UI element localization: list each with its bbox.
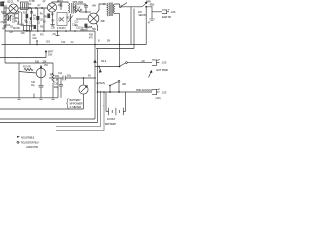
wire T3 secondary to C13: [76, 3, 86, 5]
node dot: [37, 30, 39, 32]
resistor R19: [52, 73, 54, 82]
AVC wire: [49, 77, 63, 79]
svg-text:J 2S: J 2S: [171, 10, 176, 14]
ground foot: [18, 98, 21, 100]
svg-text:S2-4: S2-4: [101, 59, 107, 63]
svg-text:L9R: L9R: [122, 84, 126, 86]
antenna L1 ferrite rod: [1, 2, 6, 24]
wire jack sleeve down: [151, 12, 153, 19]
wire branch: [45, 52, 47, 58]
rail H3: [2, 44, 147, 46]
wire down to pot: [18, 63, 20, 98]
switch blade S2-4: [120, 63, 126, 67]
resistor R8: [60, 2, 63, 10]
resistor column x14.8: [14, 14, 16, 18]
wire to EXT PWR jack: [127, 62, 152, 64]
wire pot bottom: [40, 80, 42, 86]
ground col2: [30, 25, 34, 26]
jack J1 EAR SP: [162, 10, 169, 14]
main rail H2: [5, 30, 95, 32]
wire: [40, 87, 42, 98]
transformer T4 output: [107, 3, 115, 17]
node dot: [29, 30, 31, 32]
svg-text:C12 10μ: C12 10μ: [76, 28, 85, 30]
svg-text:J 2S: J 2S: [162, 91, 167, 95]
legend adjustable: [17, 136, 20, 138]
capacitor C6 block: [47, 14, 50, 19]
node dot: [145, 6, 147, 8]
svg-text:R8 T3: R8 T3: [57, 1, 63, 3]
svg-text:R17 470: R17 470: [23, 67, 32, 69]
rail bottom 3: [0, 122, 98, 124]
rail H4: [0, 57, 46, 59]
svg-text:PWR JACK(S2-6): PWR JACK(S2-6): [136, 89, 153, 92]
shield box T2 on rail: [24, 26, 30, 31]
ground: [149, 19, 155, 20]
node dot: [103, 3, 105, 5]
battery B1: [106, 108, 126, 115]
resistor R3 column: [21, 12, 23, 24]
battery lead: [125, 92, 127, 112]
svg-text:BATTERY: BATTERY: [105, 122, 116, 126]
stub cap on bus: [30, 8, 33, 13]
svg-text:45Ω: 45Ω: [150, 3, 155, 7]
jack J2 phone: [152, 89, 160, 95]
resistor R4: [31, 12, 33, 31]
capacitor C16: [59, 78, 63, 98]
wire riser to AVC line: [57, 78, 59, 98]
svg-text:R15 1K: R15 1K: [74, 8, 81, 10]
wire wiper down: [109, 86, 111, 93]
wire: [18, 7, 48, 9]
switch S2-6 contact: [119, 6, 121, 8]
svg-text:BATTERY: BATTERY: [70, 98, 81, 102]
tuning capacitor C1: [7, 15, 11, 21]
node dot: [41, 7, 43, 9]
wire V1 main vertical: [94, 31, 96, 119]
svg-text:EAR SP: EAR SP: [162, 15, 171, 19]
wire H3b link: [96, 48, 134, 50]
node dot: [85, 11, 87, 13]
node dot: [119, 66, 121, 68]
wire V2 main vertical: [97, 49, 99, 123]
svg-text:C1S: C1S: [61, 42, 66, 44]
switch wiper arrow: [142, 2, 147, 7]
node dot: [65, 30, 67, 32]
ground Q2: [50, 25, 54, 26]
wire tuning bus: [2, 13, 18, 15]
svg-text:T2 R5: T2 R5: [29, 1, 35, 3]
rail bottom 4: [56, 92, 101, 127]
wire top signal path: [6, 7, 9, 9]
wire: [26, 10, 28, 31]
wire Q4 emitter: [96, 23, 97, 31]
resistor R15: [74, 9, 82, 11]
wire Q4 collector up: [96, 4, 107, 14]
svg-text:C5 01: C5 01: [5, 25, 11, 27]
svg-text:(+9V): (+9V): [156, 98, 161, 100]
legend polyester: [17, 141, 19, 143]
wiper arrow on V1: [93, 60, 96, 63]
node dot: [98, 66, 100, 68]
stub below rail2: [56, 31, 60, 36]
wire to earphone jack: [146, 7, 162, 12]
svg-text:C3 2D: C3 2D: [1, 22, 7, 24]
resistor R6: [43, 8, 45, 31]
transistor Q2 IF amp: [47, 3, 56, 12]
capacitor C5 block: [36, 16, 39, 20]
wire Q2 collector to T3: [52, 2, 68, 3]
wire Q2 emitter: [52, 18, 54, 24]
wire: [65, 77, 96, 79]
resistor R12 with arrow: [68, 14, 73, 24]
svg-text:AVC: AVC: [50, 74, 55, 77]
wire battery row: [98, 91, 153, 93]
battery lead: [105, 92, 107, 112]
capacitor block extra: [34, 25, 37, 29]
svg-text:22K: 22K: [1, 5, 5, 7]
svg-text:SPK 4SΩ: SPK 4SΩ: [73, 0, 84, 4]
node dot: [97, 91, 99, 93]
wire second return: [133, 9, 135, 49]
node dot: [109, 91, 111, 93]
node dot: [35, 7, 37, 9]
node dot: [36, 40, 38, 42]
svg-text:2SK: 2SK: [43, 62, 48, 64]
wire long vertical earphone return: [130, 7, 132, 45]
svg-text:R2 330: R2 330: [13, 28, 20, 30]
svg-text:2M: 2M: [107, 41, 110, 43]
node dot: [57, 30, 59, 32]
svg-text:9-VOLT: 9-VOLT: [107, 117, 116, 121]
arrow to jack: [149, 71, 152, 78]
svg-text:2SB: 2SB: [101, 21, 106, 23]
node dot: [94, 44, 96, 46]
svg-text:BATT: BATT: [48, 51, 54, 54]
node dot: [83, 77, 85, 79]
resistor R17: [24, 68, 33, 70]
rail bottom 2: [0, 118, 95, 120]
capacitor C13: [84, 4, 88, 12]
rail bottom 1: [0, 108, 84, 110]
svg-text:CAPACITOR: CAPACITOR: [26, 146, 38, 149]
svg-text:1.5K: 1.5K: [21, 33, 26, 35]
wire: [52, 83, 54, 98]
small part: [30, 17, 32, 20]
wire wiper: [19, 72, 36, 74]
transistor Q1 converter: [9, 4, 18, 13]
wire meter top: [83, 78, 85, 85]
contact circle: [118, 81, 120, 83]
wire: [70, 24, 72, 31]
transformer T3 driver: [69, 3, 77, 14]
wire T4 secondary top: [115, 4, 120, 6]
switch blade S2-5: [110, 82, 118, 86]
node dot: [100, 91, 102, 93]
svg-text:SECON: SECON: [139, 15, 147, 17]
wire: [37, 8, 39, 31]
wire speaker return: [145, 7, 147, 45]
capacitor C4 block: [26, 14, 29, 18]
wire: [52, 12, 54, 18]
node dot: [26, 30, 28, 32]
wire base feed: [80, 11, 91, 13]
switch blade: [121, 3, 127, 7]
wiper arrow: [99, 67, 101, 73]
potentiometer R18 VOL: [36, 66, 46, 80]
node dot: [119, 44, 121, 46]
svg-text:POLYESTER FILM: POLYESTER FILM: [21, 142, 39, 144]
wire left vertical: [4, 24, 6, 63]
svg-text:+9V: +9V: [92, 4, 97, 8]
node dot: [103, 91, 105, 93]
wire T4 secondary bottom return: [115, 14, 120, 67]
rail bottom 5: [56, 92, 104, 131]
svg-text:NPO: NPO: [1, 2, 6, 4]
transistor Q4 audio out: [88, 13, 99, 24]
wire switch row: [95, 66, 120, 68]
svg-text:J 2S: J 2S: [162, 61, 167, 65]
svg-text:+9V: +9V: [141, 61, 145, 63]
capacitor C14 series: [63, 76, 65, 81]
svg-text:EXT PWR: EXT PWR: [157, 68, 168, 72]
node dot: [36, 44, 38, 46]
stub with dot: [36, 41, 38, 45]
resistor column x18.5: [17, 11, 20, 24]
svg-text:4.7K R13: 4.7K R13: [57, 28, 66, 30]
capacitor C15: [39, 85, 44, 87]
svg-text:9P POWER: 9P POWER: [70, 102, 83, 106]
meter M1: [79, 85, 88, 94]
ground foot: [52, 98, 55, 100]
IF transformer T1: [21, 2, 29, 10]
svg-text:47Ω: 47Ω: [138, 12, 142, 14]
jack J3 EXT PWR: [152, 59, 160, 65]
wire volume feed: [5, 62, 53, 64]
node dot: [45, 51, 47, 53]
ground stub: [33, 94, 35, 98]
node dot: [118, 91, 120, 93]
svg-text:2SB178: 2SB178: [80, 30, 88, 32]
bracket battery meter: [66, 99, 68, 109]
detector box: [57, 13, 67, 26]
wire contact down: [118, 82, 120, 92]
ground foot: [40, 98, 43, 100]
svg-text:5.6K: 5.6K: [48, 55, 53, 57]
ground col: [20, 24, 24, 25]
svg-text:B2 Q1: B2 Q1: [8, 2, 15, 4]
node dot: [43, 30, 45, 32]
wire meter bottom: [83, 94, 85, 109]
wire C9 down: [29, 31, 31, 45]
capacitor block C12: [84, 24, 87, 28]
ground rail: [0, 97, 58, 99]
wire speaker line: [121, 6, 142, 8]
svg-text:+9V(S2-5): +9V(S2-5): [96, 83, 106, 85]
svg-text:ADJUSTABLE: ADJUSTABLE: [21, 136, 35, 139]
wire Q4 base feed: [76, 18, 88, 20]
wire Q1 emitter lead: [6, 12, 10, 16]
svg-text:OSC: OSC: [5, 16, 10, 18]
node dot: [74, 30, 76, 32]
node dot: [109, 85, 111, 87]
svg-text:S. METER: S. METER: [70, 105, 82, 109]
contact circle: [126, 62, 128, 64]
wire R19 top: [52, 63, 54, 73]
ground antenna: [3, 24, 7, 27]
